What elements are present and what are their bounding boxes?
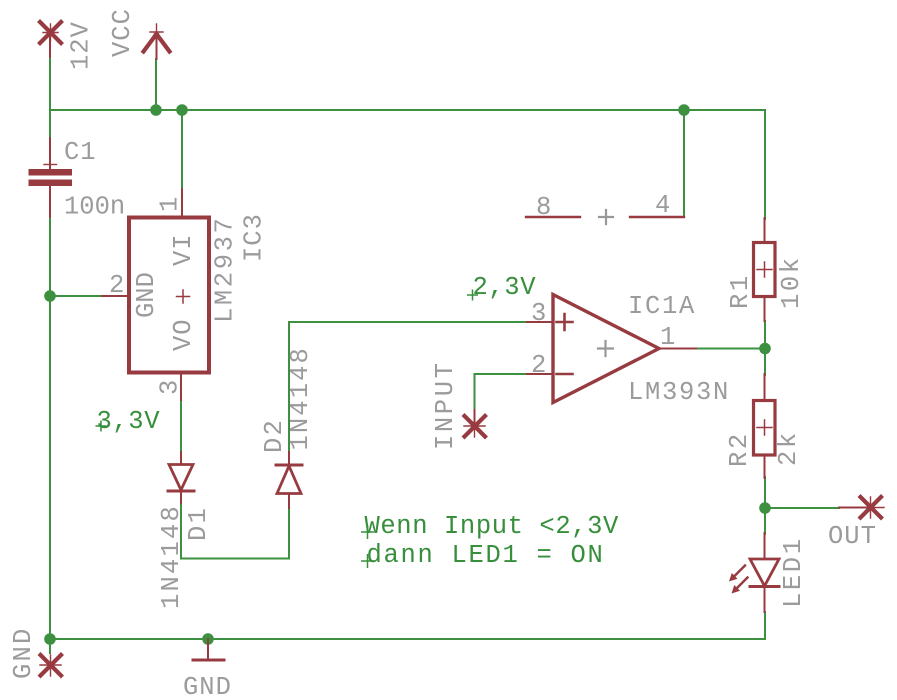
resistor R2 <box>754 374 776 478</box>
svg-text:GND: GND <box>183 673 232 700</box>
svg-text:dann LED1 = ON: dann LED1 = ON <box>367 541 605 570</box>
ground symbol GND middle <box>193 639 224 660</box>
origin cross 2,3V <box>467 290 478 301</box>
wire VCC symbol drop <box>155 59 157 110</box>
svg-text:2k: 2k <box>774 430 803 466</box>
svg-text:12V: 12V <box>67 21 96 70</box>
svg-text:LM393N: LM393N <box>628 378 730 407</box>
svg-text:2,3V: 2,3V <box>473 273 537 302</box>
IC3 pin 2 GND <box>102 295 129 297</box>
svg-text:INPUT: INPUT <box>431 360 460 450</box>
junction IC3 pin2 <box>44 290 56 302</box>
svg-text:8: 8 <box>536 193 552 222</box>
svg-text:1N4148: 1N4148 <box>286 346 315 450</box>
svg-text:OUT: OUT <box>828 522 877 551</box>
junction pin4 drop <box>678 104 690 116</box>
resistor R1 <box>754 218 776 321</box>
junction GND left <box>44 633 56 645</box>
op-amp minus input mark <box>557 373 573 376</box>
op-amp origin cross <box>598 341 613 356</box>
wire IC3 pin2 branch <box>50 295 102 297</box>
wire right rail to R1 <box>764 110 766 219</box>
junction op-amp output node <box>759 343 771 355</box>
op-amp pin 1 output <box>659 348 696 350</box>
diode D2 <box>276 452 302 508</box>
svg-text:D1: D1 <box>184 506 213 541</box>
svg-text:3,3V: 3,3V <box>97 407 161 436</box>
power pin 8 stub <box>526 216 580 218</box>
origin cross comment line 2 <box>361 554 374 568</box>
svg-text:VO: VO <box>169 318 198 351</box>
svg-text:R2: R2 <box>725 431 754 467</box>
junction GND symbol tap <box>202 633 214 645</box>
wire top rail VCC net <box>50 109 765 111</box>
svg-text:IC3: IC3 <box>240 213 269 262</box>
wire op-amp output to R divider <box>696 348 765 350</box>
IC3 pin 3 VO <box>180 373 182 401</box>
wire LED1 to GND rail <box>764 612 766 639</box>
power pin 4 stub <box>630 216 684 218</box>
svg-text:1N4148: 1N4148 <box>157 504 186 609</box>
power symbol origin cross <box>599 210 613 224</box>
voltage regulator IC3 body <box>129 218 209 373</box>
svg-text:R1: R1 <box>726 273 755 309</box>
wire IC3 pin3 to D1 <box>180 400 182 452</box>
origin cross 3,3V <box>96 421 107 432</box>
op-amp IC1A body <box>553 295 659 403</box>
svg-text:4: 4 <box>655 191 671 220</box>
svg-text:100n: 100n <box>64 193 125 222</box>
IC3 pin 1 VI <box>181 189 183 216</box>
node GND left cross <box>40 655 61 676</box>
svg-text:2: 2 <box>531 351 547 380</box>
svg-text:VCC: VCC <box>108 8 137 57</box>
svg-text:GND: GND <box>9 626 38 679</box>
node INPUT cross <box>464 410 485 437</box>
capacitor C1 <box>29 138 73 217</box>
IC3 origin cross <box>177 290 190 303</box>
node OUT cross <box>839 497 884 518</box>
svg-text:2: 2 <box>109 271 125 300</box>
svg-text:C1: C1 <box>64 138 97 167</box>
wire OUT branch <box>765 507 839 509</box>
svg-text:GND: GND <box>132 272 161 318</box>
diode D1 <box>168 452 194 503</box>
op-amp plus input mark <box>557 314 573 330</box>
op-amp pin 2 <box>527 373 553 375</box>
wire R1 to R2 <box>764 321 766 375</box>
svg-text:1: 1 <box>156 196 185 212</box>
svg-text:3: 3 <box>156 379 185 395</box>
wire bottom GND rail <box>50 638 765 640</box>
svg-text:D2: D2 <box>260 418 289 453</box>
wire R2 to LED1 <box>764 477 766 534</box>
wire pin4 drop <box>683 110 685 216</box>
svg-text:VI: VI <box>169 233 198 266</box>
wire D2 up to op-amp pin3 <box>289 322 527 452</box>
svg-text:3: 3 <box>531 299 547 328</box>
wire IC3 pin1 drop <box>181 110 183 189</box>
op-amp pin 3 <box>527 321 553 323</box>
origin cross comment line 1 <box>361 525 374 539</box>
junction OUT node <box>759 502 771 514</box>
wire D1 to corner <box>181 503 289 559</box>
svg-text:Wenn Input <2,3V: Wenn Input <2,3V <box>365 512 620 541</box>
svg-text:IC1A: IC1A <box>628 292 696 321</box>
node VCC supply arrow <box>144 24 170 59</box>
svg-text:LM2937: LM2937 <box>211 216 240 323</box>
LED LED1 <box>729 533 779 612</box>
svg-text:LED1: LED1 <box>779 536 808 608</box>
svg-text:1: 1 <box>660 323 676 352</box>
node 12V supply cross <box>40 22 61 57</box>
wire INPUT to op-amp pin2 <box>475 374 528 411</box>
svg-text:10k: 10k <box>777 255 806 309</box>
wire C1 bottom to GND rail <box>49 217 51 653</box>
junction VCC at 12V column <box>150 104 162 116</box>
wire left vertical 12V to C1 <box>49 57 51 138</box>
junction IC3 pin1 <box>176 104 188 116</box>
